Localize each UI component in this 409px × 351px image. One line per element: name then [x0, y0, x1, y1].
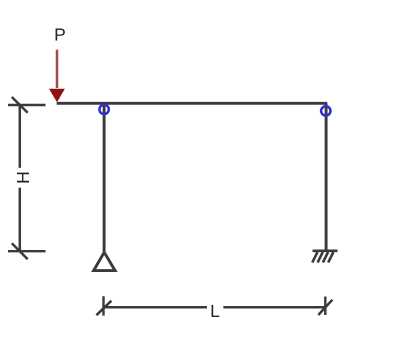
hinge circle at right column top: [321, 106, 330, 115]
svg-text:L: L: [210, 301, 220, 321]
pin support triangle (left column base): [94, 252, 116, 270]
H dimension vertical line lower segment: [19, 188, 22, 251]
H dimension vertical line upper segment: [19, 105, 22, 168]
hinge circle at left column top: [99, 105, 108, 114]
H dimension extension line bottom: [8, 250, 46, 252]
load P arrow shaft: [56, 50, 59, 88]
svg-text:H: H: [13, 171, 33, 184]
L dimension tick slash right: [318, 300, 332, 315]
L dimension extension tick right (vertical): [324, 297, 326, 316]
fixed support hatch stroke 3: [323, 252, 328, 263]
beam (top girder): [57, 102, 327, 105]
H dimension tick slash top: [12, 97, 28, 113]
fixed support ground line (right column base): [313, 250, 338, 253]
load P arrowhead: [49, 89, 65, 103]
L dimension tick slash left: [96, 301, 111, 316]
L dimension horizontal line right segment: [223, 306, 325, 309]
left column: [103, 103, 106, 251]
fixed support hatch stroke 2: [318, 252, 323, 263]
H dimension extension line top: [8, 104, 46, 106]
fixed support hatch stroke 1: [312, 252, 317, 263]
H dimension tick slash bottom: [12, 243, 28, 259]
L dimension extension tick left (vertical): [102, 296, 104, 315]
right column: [325, 103, 328, 250]
svg-text:P: P: [54, 25, 66, 45]
fixed support hatch stroke 4: [328, 252, 333, 263]
L dimension horizontal line left segment: [104, 306, 208, 309]
